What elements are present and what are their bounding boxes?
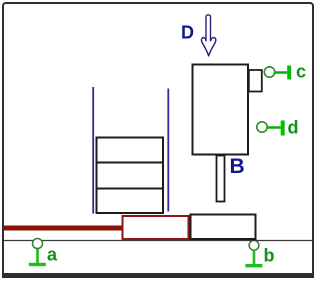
blue guide line right (167, 89, 169, 212)
svg-text:b: b (264, 246, 275, 266)
pointer icon d : shaft (267, 126, 281, 129)
svg-text:d: d (288, 118, 299, 138)
svg-text:D: D (181, 23, 194, 43)
thick dark red bar (left track) (3, 226, 123, 231)
pointer icon c : shaft (275, 71, 288, 74)
black outlined box (bottom right) (191, 215, 256, 240)
red outlined box (bottom middle) (123, 216, 189, 239)
svg-text:a: a (47, 245, 58, 265)
stack of three boxes (97, 138, 164, 214)
ground line (horizontal rail) (4, 240, 312, 242)
support a : base (29, 263, 46, 266)
small tab rect on right of big block (249, 70, 262, 92)
pointer icon c : end bar (287, 66, 291, 80)
pointer icon d : circle (257, 122, 267, 132)
pointer icon d : end bar (281, 121, 285, 136)
support a : stem (36, 248, 39, 264)
svg-text:c: c (296, 62, 306, 82)
support b : circle (249, 240, 259, 250)
blue guide line left (92, 87, 94, 214)
support b : stem (253, 251, 256, 266)
svg-text:B: B (230, 155, 245, 178)
big block (press body) (193, 65, 249, 155)
support a : circle (33, 239, 43, 249)
stem below big block (217, 156, 225, 202)
support b : base (245, 264, 262, 267)
pointer icon c : circle (264, 67, 274, 77)
thick bottom border of frame (2, 273, 314, 278)
hollow down arrow (201, 15, 215, 56)
